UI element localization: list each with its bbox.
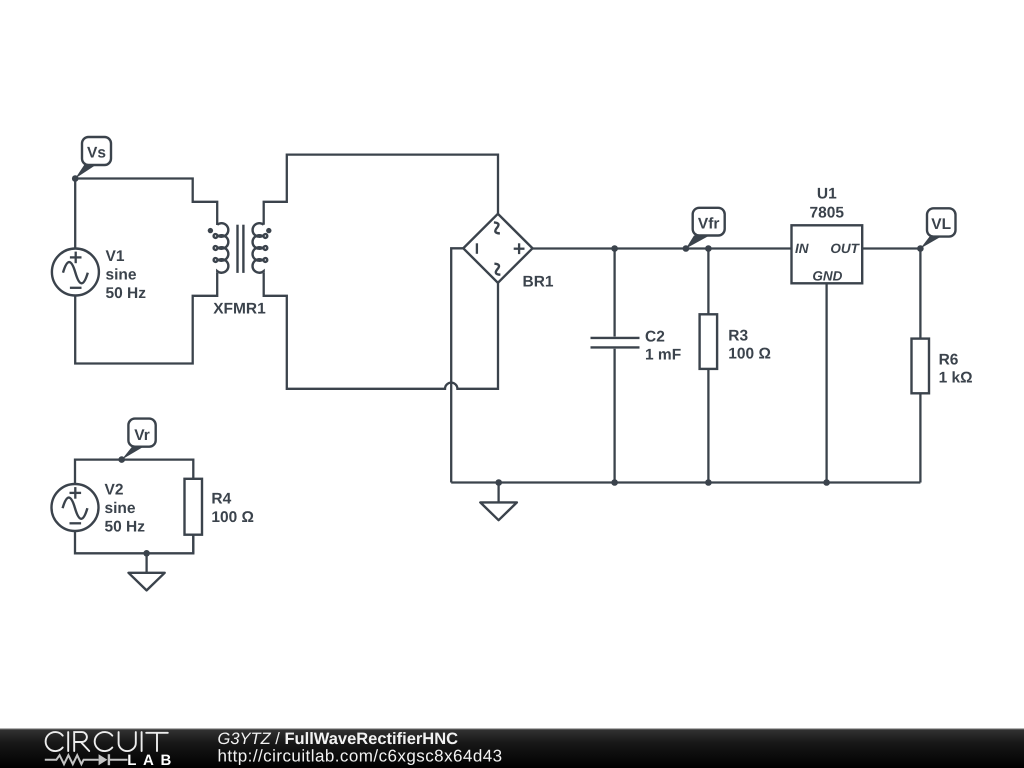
CircuitLab logo LAB — [127, 752, 178, 768]
wire V1 top to transformer primary — [75, 179, 217, 226]
svg-text:1 mF: 1 mF — [645, 347, 681, 364]
svg-text:http://circuitlab.com/c6xgsc8x: http://circuitlab.com/c6xgsc8x64d43 — [218, 747, 503, 766]
svg-text:R4: R4 — [211, 491, 231, 508]
CircuitLab logo CIRCUIT — [46, 732, 168, 751]
svg-text:Vr: Vr — [134, 427, 150, 444]
voltage source V1 — [52, 248, 146, 302]
svg-text:LAB: LAB — [127, 752, 178, 768]
voltage source V2 — [52, 482, 146, 536]
resistor R6 — [912, 249, 973, 483]
footer bar — [0, 729, 1024, 768]
net label Vfr — [683, 208, 725, 252]
wire V1 negative lead to primary bottom — [75, 273, 217, 364]
svg-text:V2: V2 — [105, 482, 124, 499]
transformer XFMR1 — [208, 223, 272, 317]
ground main — [480, 479, 517, 520]
footer url text — [218, 747, 503, 766]
wire main rail bridge to U1 IN — [533, 247, 792, 249]
wire bottom ground rail — [451, 481, 920, 483]
svg-text:50 Hz: 50 Hz — [106, 285, 147, 302]
svg-text:U1: U1 — [817, 186, 837, 203]
capacitor C2 — [591, 245, 682, 486]
resistor R4 — [185, 479, 255, 554]
regulator U1 — [792, 186, 863, 284]
svg-text:V1: V1 — [106, 248, 125, 265]
svg-text:sine: sine — [105, 500, 136, 517]
svg-text:VL: VL — [931, 216, 951, 233]
wire V2 top rail — [75, 460, 193, 484]
svg-text:Vfr: Vfr — [698, 216, 720, 233]
net label Vr — [118, 419, 155, 463]
svg-text:XFMR1: XFMR1 — [213, 301, 266, 318]
svg-text:BR1: BR1 — [523, 274, 554, 291]
svg-text:R3: R3 — [728, 328, 748, 345]
svg-text:R6: R6 — [939, 352, 959, 369]
wire V2 bottom rail — [75, 531, 193, 553]
wire V1 positive lead — [74, 179, 76, 249]
svg-text:C2: C2 — [645, 329, 665, 346]
CircuitLab logo resistor-diode glyph — [45, 754, 128, 765]
svg-text:50 Hz: 50 Hz — [105, 519, 146, 536]
svg-text:100 Ω: 100 Ω — [728, 346, 771, 363]
wire U1 GND pin down to rail — [823, 283, 830, 486]
svg-text:1 kΩ: 1 kΩ — [939, 370, 973, 387]
svg-text:IN: IN — [795, 241, 809, 256]
ground V2 — [129, 550, 165, 590]
footer title text — [218, 730, 459, 748]
svg-text:sine: sine — [106, 267, 137, 284]
wire secondary bottom to bridge (with hop) — [264, 273, 498, 389]
svg-text:7805: 7805 — [810, 205, 845, 222]
svg-text:GND: GND — [812, 269, 842, 284]
net label VL — [917, 208, 955, 252]
svg-text:G3YTZ / FullWaveRectifierHNC: G3YTZ / FullWaveRectifierHNC — [218, 730, 459, 748]
bridge rectifier BR1 — [463, 214, 554, 291]
wire U1 OUT to VL node — [862, 247, 920, 249]
wire secondary top to bridge — [264, 155, 498, 225]
svg-text:OUT: OUT — [830, 241, 860, 256]
wire bridge left vertex down to ground rail — [451, 248, 463, 482]
svg-text:Vs: Vs — [87, 145, 106, 162]
resistor R3 — [700, 245, 771, 486]
net label Vs — [72, 137, 111, 182]
svg-text:100 Ω: 100 Ω — [211, 509, 254, 526]
